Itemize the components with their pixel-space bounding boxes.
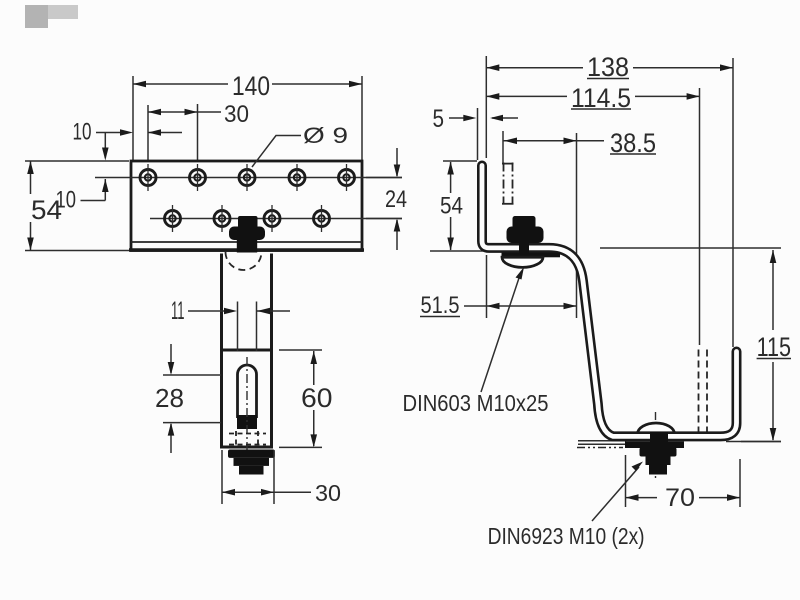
svg-text:70: 70	[665, 484, 695, 512]
svg-text:DIN6923 M10 (2x): DIN6923 M10 (2x)	[488, 523, 645, 549]
svg-text:5: 5	[433, 105, 445, 133]
svg-text:54: 54	[440, 193, 463, 220]
svg-text:10: 10	[73, 119, 92, 146]
svg-text:60: 60	[301, 383, 333, 413]
svg-text:51.5: 51.5	[421, 292, 460, 319]
svg-text:140: 140	[232, 71, 270, 101]
svg-text:54: 54	[31, 195, 62, 225]
svg-text:24: 24	[385, 186, 407, 213]
svg-text:28: 28	[155, 383, 184, 413]
svg-text:30: 30	[224, 101, 249, 128]
svg-text:DIN603 M10x25: DIN603 M10x25	[403, 390, 549, 416]
svg-text:Ø 9: Ø 9	[303, 123, 348, 148]
svg-text:138: 138	[587, 52, 629, 82]
svg-text:115: 115	[757, 332, 791, 362]
svg-text:11: 11	[171, 297, 185, 325]
svg-text:30: 30	[315, 480, 341, 506]
